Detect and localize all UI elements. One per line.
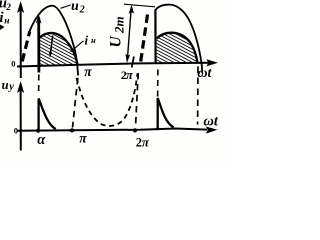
svg-text:u: u	[2, 78, 9, 92]
wire top y-axis	[20, 6, 22, 78]
left edge scan mark	[0, 25, 5, 31]
node label i_n curve + leader	[71, 41, 84, 52]
node dot alpha	[36, 129, 40, 133]
svg-text:π: π	[126, 68, 134, 82]
pulse u_y 1	[39, 99, 56, 130]
node dot pulse2 base	[156, 127, 159, 130]
svg-text:π: π	[79, 131, 87, 146]
wire dashed connector at 2pi+alpha (to pulse2)	[157, 70, 159, 98]
svg-text:н: н	[91, 35, 96, 45]
wire dashed connector at alpha (top axis to pulse1)	[38, 75, 40, 96]
wire bottom x-axis	[17, 129, 207, 131]
wire dashed connector at 2pi (to bottom axis)	[136, 73, 139, 127]
svg-text:2: 2	[5, 2, 11, 12]
wire bold dashed sine rise period2	[141, 14, 148, 62]
svg-text:π: π	[142, 134, 150, 149]
svg-text:ωt: ωt	[203, 114, 218, 130]
arrow u2 jump at alpha (vertical, arrowhead up)	[37, 18, 40, 73]
curve i_n outline period1	[39, 33, 77, 65]
hatched region i_n period2	[157, 33, 198, 64]
svg-text:u: u	[71, 0, 79, 14]
wire 2pi top tick	[132, 57, 134, 68]
hatched region i_n period1	[40, 33, 78, 66]
svg-text:0: 0	[14, 126, 18, 136]
curve u2 period1	[29, 6, 78, 76]
svg-text:2m: 2m	[112, 16, 127, 34]
svg-text:i: i	[85, 32, 89, 47]
node dot 2pi bottom	[133, 128, 137, 132]
node label u2 curve + leader	[61, 5, 71, 8]
dimension U2m: top bar	[124, 4, 155, 7]
svg-text:U: U	[108, 36, 125, 48]
wire dashed connector right (3pi)	[197, 67, 199, 125]
svg-text:н: н	[4, 17, 9, 27]
svg-text:у: у	[7, 81, 14, 92]
pulse u_y 2	[158, 98, 174, 129]
curve u2 period2	[155, 5, 202, 73]
node dot pi bottom	[70, 128, 74, 132]
node label U2m (rotated)	[108, 16, 127, 47]
wire dashed connector at pi (to bottom axis)	[73, 78, 78, 128]
wire bottom y-axis	[20, 86, 22, 151]
wire vertical rise at 2pi+alpha	[154, 10, 156, 63]
svg-text:π: π	[84, 64, 92, 79]
wire top x-axis	[17, 63, 209, 67]
curve dashed negative half-sine (valley)	[77, 74, 138, 126]
node top y-axis arrowhead	[17, 1, 24, 13]
svg-text:α: α	[37, 132, 46, 148]
node bottom y-axis arrowhead	[17, 81, 24, 93]
arrow small inside hatch (down)	[50, 36, 52, 55]
node bottom x-axis arrowhead	[206, 127, 218, 134]
svg-text:ωt: ωt	[197, 66, 212, 81]
node top x-axis arrowhead	[207, 59, 219, 66]
svg-text:2: 2	[79, 4, 85, 15]
curve i_n outline period2	[157, 33, 198, 63]
svg-text:0: 0	[11, 59, 15, 69]
dimension U2m: vertical with two arrowheads	[127, 7, 131, 61]
wire bold dashed sine rise period1	[22, 32, 30, 62]
